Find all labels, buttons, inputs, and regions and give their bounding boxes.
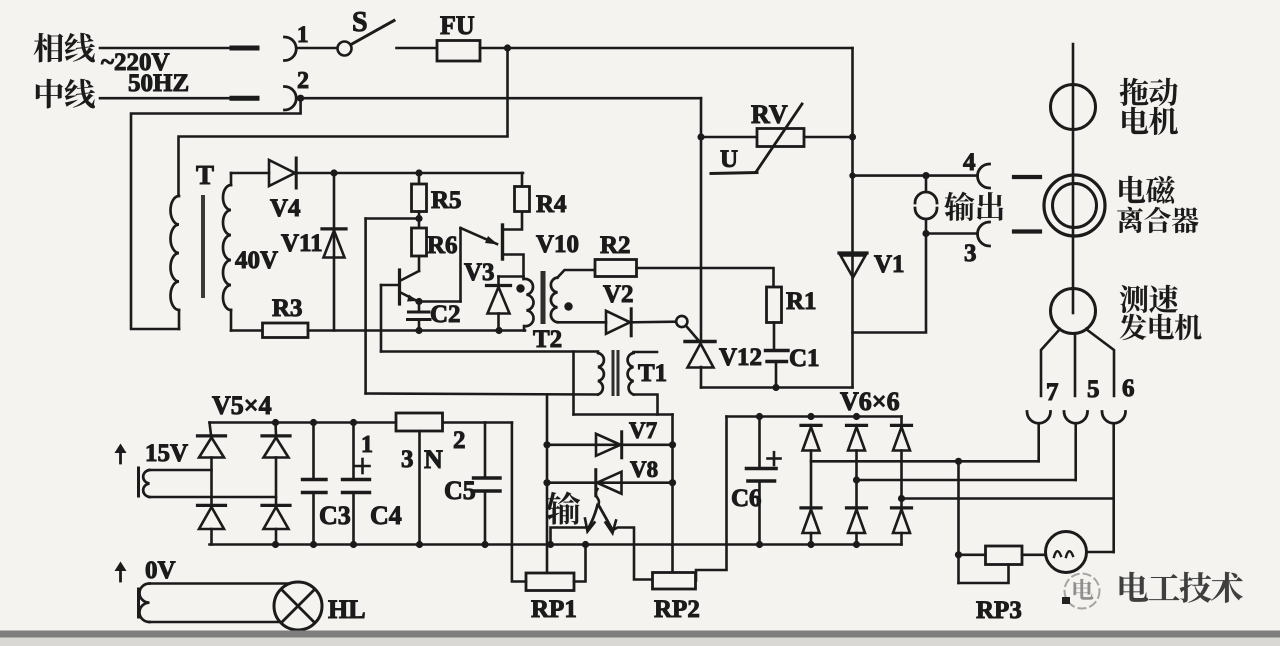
RP3 left lead bbox=[959, 553, 986, 556]
T2 secondary polarity dot bbox=[564, 302, 572, 310]
V5 diode top2 bbox=[274, 423, 277, 436]
svg-text:7: 7 bbox=[1046, 379, 1059, 406]
svg-text:V1: V1 bbox=[874, 251, 905, 278]
diode V7 bbox=[596, 434, 621, 456]
wire base line A bbox=[380, 285, 383, 352]
wire RV to main node bbox=[804, 136, 853, 139]
V6 col2 stem bbox=[855, 451, 858, 509]
svg-text:C5: C5 bbox=[444, 476, 476, 505]
wire neutral run bbox=[297, 97, 702, 100]
wire secondary bottom bbox=[231, 329, 263, 332]
diode V11 bbox=[333, 173, 336, 331]
node 926 top bbox=[922, 172, 929, 179]
resistor R4 bbox=[515, 187, 530, 212]
svg-text:T2: T2 bbox=[533, 326, 562, 353]
label 拖动电机 bbox=[1120, 78, 1149, 106]
node V6 rail col1 bbox=[807, 413, 814, 420]
potentiometer RP3 bbox=[986, 546, 1023, 565]
node rail C3 bbox=[310, 419, 317, 426]
svg-text:V8: V8 bbox=[630, 457, 658, 482]
thyristor V3 bbox=[487, 284, 511, 287]
scan edge band bbox=[0, 631, 1280, 638]
rail nodes bbox=[272, 541, 279, 548]
node output4 bbox=[849, 172, 855, 178]
node rail C4 bbox=[350, 419, 357, 426]
0V winding bbox=[137, 589, 140, 617]
node terminal 2 bbox=[297, 95, 304, 102]
transistor V9 bjt bbox=[418, 256, 421, 271]
wire phase line bbox=[100, 47, 230, 50]
wire neutral to primary bottom bbox=[131, 98, 301, 329]
svg-text:V2: V2 bbox=[603, 281, 634, 308]
node V3 anode bbox=[495, 327, 502, 334]
svg-text:1: 1 bbox=[297, 22, 309, 47]
15V winding top lead bbox=[150, 469, 212, 472]
svg-text:R2: R2 bbox=[600, 232, 631, 259]
wire secondary top rail bbox=[231, 172, 269, 175]
transformer T2 primary winding bbox=[524, 279, 534, 326]
label 输出 (output) bbox=[944, 192, 974, 221]
tacho lead 5 bbox=[1074, 334, 1077, 397]
V6 diode top3 bbox=[900, 417, 903, 426]
wire V7V8 left vertical bbox=[546, 395, 549, 574]
node RV right bbox=[849, 133, 856, 140]
wire right vertical 672 bbox=[671, 415, 674, 573]
resistor R2 bbox=[595, 260, 637, 277]
socket 7 bbox=[1027, 412, 1051, 424]
svg-text:C6: C6 bbox=[731, 485, 762, 512]
resistor R1 bbox=[767, 287, 782, 323]
socket 6 bbox=[1102, 412, 1126, 424]
wire output3 return loop bbox=[853, 234, 927, 333]
UJT V10 emitter arrow bbox=[461, 228, 498, 244]
wire R1 to C1 bbox=[773, 323, 776, 351]
node output3 bbox=[922, 230, 929, 237]
wire motor to lead6 bbox=[1087, 551, 1114, 554]
switch S bbox=[338, 42, 352, 56]
node V7 right bbox=[669, 441, 676, 448]
wire UJT B2 to R4 bbox=[503, 212, 523, 230]
transformer T2 core bbox=[541, 271, 546, 324]
UJT V10 base bar bbox=[501, 225, 504, 259]
svg-text:R4: R4 bbox=[536, 191, 567, 218]
V12 gate lead bbox=[686, 326, 700, 342]
RP3 wiper return bbox=[959, 565, 1009, 584]
V5 diode top1 bbox=[198, 434, 226, 437]
V6 diode top2 bbox=[847, 424, 867, 427]
V6 top rail bbox=[727, 415, 902, 418]
transformer T1 right winding bbox=[628, 353, 634, 395]
svg-text:6: 6 bbox=[1122, 375, 1135, 402]
V5 diode bot1 bbox=[198, 504, 226, 507]
svg-text:V6×6: V6×6 bbox=[840, 387, 900, 416]
capacitor C5 bbox=[484, 423, 487, 478]
phase row C bbox=[902, 497, 1114, 500]
arrow to T 0V bbox=[119, 565, 122, 581]
svg-text:2: 2 bbox=[453, 427, 466, 454]
svg-text:RV: RV bbox=[751, 100, 788, 129]
phase row B bbox=[857, 479, 1076, 482]
svg-text:R3: R3 bbox=[272, 295, 303, 322]
tacho generator circle bbox=[1051, 289, 1096, 334]
diode V4 bbox=[269, 160, 295, 186]
V6 diode bot2 bbox=[847, 506, 867, 509]
watermark text 电工技术 bbox=[1120, 572, 1149, 602]
transformer T secondary winding 40V bbox=[223, 185, 231, 310]
0V top lead bbox=[150, 582, 290, 585]
wire R5R6 junction west bbox=[366, 217, 419, 220]
svg-text:15V: 15V bbox=[145, 440, 188, 467]
motor shaft bbox=[1072, 44, 1075, 289]
svg-text:3: 3 bbox=[964, 240, 977, 267]
node V6 rail col2 bbox=[853, 413, 860, 420]
wire output 4 bbox=[853, 174, 927, 177]
label 输 (input) bbox=[546, 492, 580, 525]
RP1 left lead bbox=[512, 423, 526, 582]
svg-text:V12: V12 bbox=[719, 344, 762, 371]
svg-text:V7: V7 bbox=[629, 418, 657, 443]
node rail col2 bbox=[272, 419, 279, 426]
node R5 top bbox=[415, 169, 422, 176]
wire to RV bbox=[701, 136, 757, 139]
svg-text:RP1: RP1 bbox=[531, 596, 577, 623]
electromagnetic clutch circles bbox=[1044, 175, 1105, 236]
T1 right bottom lead bbox=[634, 395, 658, 415]
wire neutral line bbox=[100, 97, 230, 100]
lamp HL bbox=[274, 582, 322, 630]
svg-text:R5: R5 bbox=[431, 187, 462, 214]
label 相线 (phase line) bbox=[34, 33, 64, 63]
V6 diode top1 bbox=[801, 424, 821, 427]
wire V7 row bbox=[547, 443, 673, 446]
node C2 bottom bbox=[415, 327, 422, 334]
capacitor C1 bbox=[766, 349, 789, 352]
node emitter C2 bbox=[415, 298, 422, 305]
node RP3 left bbox=[955, 551, 962, 558]
wire FU to node bbox=[480, 47, 853, 50]
15V winding bottom lead bbox=[150, 496, 277, 499]
varistor RV bbox=[757, 129, 804, 147]
svg-text:V5×4: V5×4 bbox=[212, 391, 272, 420]
transformer T1 core bbox=[612, 350, 615, 396]
0V bottom lead bbox=[150, 621, 281, 624]
node R5-R6 bbox=[418, 212, 421, 229]
transformer T primary winding bbox=[171, 196, 179, 310]
V5 col1 bbox=[210, 423, 212, 436]
fuse FU bbox=[437, 41, 480, 62]
V5 top rail bbox=[210, 421, 397, 424]
wire UJT B1 to T2 bbox=[503, 255, 524, 277]
wire bottom rail v12-c1 bbox=[701, 386, 853, 389]
wire terminal1 to switch bbox=[297, 47, 338, 50]
svg-text:R6: R6 bbox=[427, 232, 458, 259]
node V11 top bbox=[330, 169, 337, 176]
inline connector pair bbox=[925, 176, 928, 192]
label 中线 (neutral line) bbox=[36, 79, 63, 109]
connector output 3 socket bbox=[978, 222, 990, 246]
diode V8 bbox=[597, 472, 622, 494]
thyristor V12 bbox=[685, 340, 715, 343]
wire V8 row bbox=[547, 481, 673, 484]
node at x507 bbox=[504, 44, 511, 51]
svg-text:R1: R1 bbox=[786, 288, 817, 315]
wire left branch down bbox=[364, 219, 367, 394]
svg-text:V10: V10 bbox=[536, 231, 579, 258]
T1 right top lead bbox=[634, 351, 658, 354]
diode V1 bbox=[839, 251, 867, 254]
tacho lead 7 bbox=[1041, 329, 1060, 396]
resistor R6 bbox=[412, 228, 427, 256]
node V8 right bbox=[669, 479, 676, 486]
svg-text:50HZ: 50HZ bbox=[128, 70, 189, 97]
V6 diode bot1 bbox=[801, 506, 821, 509]
svg-text:HL: HL bbox=[328, 595, 366, 624]
svg-text:C1: C1 bbox=[789, 345, 820, 372]
V5 diode bot2 bbox=[262, 504, 290, 507]
capacitor C6 bbox=[758, 417, 761, 469]
wire V6 rail to RP2 right bbox=[696, 417, 727, 581]
wire row A down bbox=[957, 461, 960, 583]
V5 col1 mid bbox=[210, 458, 213, 505]
wire to transformer primary top bbox=[179, 48, 508, 196]
transformer T core bbox=[201, 195, 205, 298]
V6 col1 stem bbox=[810, 451, 813, 509]
node row A bbox=[955, 458, 962, 465]
wire long y394 bbox=[366, 394, 598, 395]
svg-text:2: 2 bbox=[297, 68, 309, 94]
svg-text:FU: FU bbox=[440, 11, 475, 40]
svg-text:1: 1 bbox=[361, 432, 373, 458]
resistor R3 bbox=[263, 323, 309, 338]
svg-text:RP3: RP3 bbox=[976, 597, 1022, 624]
connector terminal 1 bbox=[285, 37, 297, 61]
capacitor C3 bbox=[312, 423, 315, 480]
svg-text:T: T bbox=[196, 160, 214, 190]
svg-text:4: 4 bbox=[963, 149, 976, 176]
label 电磁离合器 bbox=[1119, 176, 1145, 203]
tacho load motor circle bbox=[1046, 532, 1087, 573]
capacitor C2 bbox=[418, 302, 421, 313]
watermark logo bbox=[1065, 574, 1100, 609]
wire input right to RP2 bbox=[613, 528, 653, 580]
node RV left bbox=[697, 133, 704, 140]
wire switch to FU bbox=[397, 47, 438, 50]
svg-text:C3: C3 bbox=[319, 501, 351, 530]
wire link to 672 bbox=[574, 413, 673, 416]
wire rail y330 bbox=[308, 329, 525, 332]
potentiometer RP1 bbox=[526, 573, 574, 591]
wire output 3 bbox=[926, 232, 978, 235]
svg-text:V4: V4 bbox=[270, 195, 301, 222]
node V7 left bbox=[543, 441, 550, 448]
V12 gate terminal circle bbox=[676, 316, 687, 327]
RP1 right lead bbox=[574, 545, 586, 582]
T2 secondary bottom lead bbox=[558, 321, 607, 324]
drag motor circle bbox=[1051, 85, 1096, 130]
clutch slip ring bars bbox=[1014, 175, 1040, 179]
wire neutral down x700 bbox=[700, 98, 703, 341]
svg-text:C4: C4 bbox=[370, 501, 402, 530]
svg-text:5: 5 bbox=[1087, 376, 1100, 403]
wire emitter to UJT bbox=[419, 300, 461, 303]
arrow to T 15V bbox=[119, 447, 122, 463]
tacho lead 6 bbox=[1086, 329, 1114, 396]
V6 diode bot3 bbox=[892, 506, 912, 509]
V5 col2 mid bbox=[275, 458, 278, 505]
svg-text:0V: 0V bbox=[145, 557, 176, 584]
phase row A bbox=[811, 460, 1039, 463]
wire input left to rail bbox=[551, 528, 589, 545]
svg-text:T1: T1 bbox=[638, 360, 667, 387]
wire cross link bbox=[572, 352, 575, 415]
socket 5 bbox=[1064, 412, 1088, 424]
wire V2 to gate bbox=[632, 320, 677, 323]
svg-text:U: U bbox=[720, 146, 738, 173]
capacitor C4 polarized bbox=[352, 423, 355, 480]
node V6 rail C6 bbox=[756, 413, 763, 420]
svg-text:V3: V3 bbox=[464, 259, 495, 286]
resistor R5 bbox=[418, 173, 421, 184]
svg-text:3: 3 bbox=[401, 446, 414, 473]
svg-text:V11: V11 bbox=[281, 230, 323, 257]
15V winding bbox=[137, 468, 140, 496]
node V8 left bbox=[543, 479, 550, 486]
transformer T2 secondary winding bbox=[551, 278, 558, 323]
RP3 right lead bbox=[1022, 553, 1045, 556]
label 测速发电机 bbox=[1120, 285, 1148, 313]
wire main vertical x852 bbox=[851, 48, 854, 388]
wire R2 to R1 bbox=[637, 268, 774, 287]
V6 col3 stem bbox=[900, 451, 903, 509]
transformer T1 left winding bbox=[598, 353, 604, 395]
svg-text:S: S bbox=[352, 7, 368, 38]
svg-text:40V: 40V bbox=[235, 247, 278, 274]
connector terminal 2 bbox=[285, 87, 297, 111]
svg-text:C2: C2 bbox=[430, 301, 461, 328]
input arrows 入 bbox=[596, 489, 599, 506]
regulator N bbox=[396, 413, 443, 431]
potentiometer RP2 bbox=[653, 573, 696, 590]
T2 primary polarity dot bbox=[516, 284, 524, 292]
connector output 4 socket bbox=[978, 164, 990, 188]
diode V2 bbox=[606, 311, 630, 334]
T2 secondary top lead bbox=[558, 270, 596, 278]
main 0V rail bbox=[210, 543, 902, 546]
wire V3 top bbox=[499, 275, 524, 278]
node C1 bottom bbox=[772, 384, 779, 391]
svg-text:N: N bbox=[424, 445, 443, 474]
svg-text:RP2: RP2 bbox=[654, 596, 700, 623]
